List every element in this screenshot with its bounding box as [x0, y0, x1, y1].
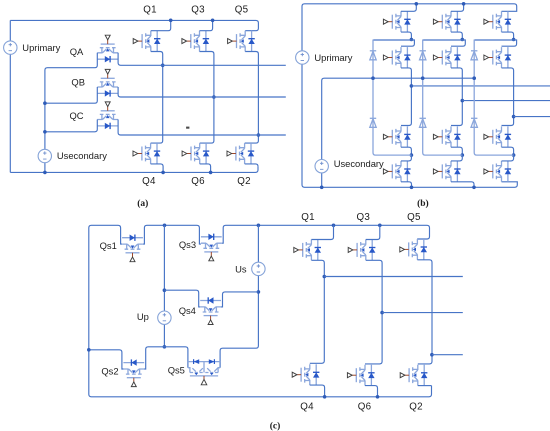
svg-text:Q6: Q6 — [191, 176, 205, 187]
transistor leg1-S2 (fig b) — [383, 47, 410, 68]
wire: fig-b left bus through Uprimary — [302, 4, 305, 188]
wire: leg3 N3 to S4 drain — [502, 155, 514, 161]
wire: phase line 2 (fig c) — [382, 312, 463, 314]
transistor leg2-S4 (fig b) — [433, 161, 460, 182]
voltage source Uprimary (fig b) — [296, 51, 309, 64]
transistor Q2 (fig a) — [227, 143, 254, 164]
junction: leg3 phase tap (fig c) — [430, 353, 434, 357]
wire: leg3 Q5 source down to Q2 drain — [245, 52, 259, 144]
wire: Q6 source to bottom rail — [200, 164, 211, 173]
wire: leg3 Q5 source to Q2 drain (fig c) — [417, 260, 432, 364]
junction: Q1 drain on top rail — [169, 19, 173, 23]
wire: top line Qs1 to Qs3 — [143, 225, 201, 244]
svg-text:Q1: Q1 — [301, 212, 315, 223]
wire: Up column — [163, 225, 165, 346]
svg-text:Usecondary: Usecondary — [334, 158, 384, 169]
svg-text:Q3: Q3 — [191, 5, 205, 16]
wire: leg1 output line to right edge — [411, 85, 550, 87]
junction: leg1 phase tap (fig c) — [323, 275, 327, 279]
junction: leg1 phase tap — [161, 64, 165, 68]
wire: leg3 clamp diode column — [474, 40, 513, 156]
junction: leg1 drain on top rail — [415, 2, 419, 6]
wire: leg1 S1 drain to top rail — [401, 4, 416, 12]
transistor leg3-S2 (fig b) — [484, 47, 511, 68]
junction: Q4 source on bottom rail — [161, 171, 165, 175]
wire: leg1 S4 source to bottom rail — [401, 182, 412, 188]
wire: top line Qs3 to bridge and Q5 drain — [222, 225, 430, 243]
wire: Q4 source to bottom rail (fig c) — [310, 385, 325, 397]
wire: Qs2 right to Up node — [144, 347, 164, 369]
wire: leg2 S1 source to clamp node N1 — [451, 32, 462, 39]
junction: leg2 source on bottom rail — [472, 186, 476, 190]
wire: phase line A from QA — [118, 53, 286, 66]
transistor Qs2 (fig c) — [123, 359, 144, 386]
junction: Q3 drain on top line — [378, 224, 382, 228]
transistor leg3-S1 (fig b) — [484, 11, 511, 32]
wire: phase line 1 (fig c) — [324, 276, 463, 278]
wire: Up node to Qs5 left — [165, 347, 188, 368]
junction: leg1 node N3 — [410, 153, 414, 157]
svg-text:QA: QA — [70, 46, 84, 57]
wire: phase line B from QB — [118, 87, 286, 97]
svg-text:Q5: Q5 — [235, 5, 249, 16]
transistor Q1 (fig c) — [294, 240, 321, 261]
svg-text:QB: QB — [71, 77, 85, 88]
svg-text:Q4: Q4 — [142, 176, 156, 187]
transistor Q4 (fig a) — [133, 143, 160, 164]
junction: Q4 source on bottom rail (fig c) — [323, 395, 327, 399]
transistor leg3-S4 (fig b) — [484, 161, 511, 182]
wire: phase line C from QC — [118, 120, 286, 136]
wire: leg1 midpoint Q1 source to Q4 drain — [151, 52, 163, 144]
junction: leg3 clamp on neutral rail — [472, 76, 476, 80]
svg-text:Qs5: Qs5 — [168, 365, 185, 376]
wire: leg1 N1 to S2 drain — [373, 40, 414, 46]
wire: QB left terminal to bus — [45, 87, 97, 103]
wire: phase line 3 (fig c) — [432, 354, 463, 356]
junction: Up column on top line — [163, 224, 167, 228]
junction: leg1 source on bottom rail — [410, 186, 414, 190]
junction: Q6 source on bottom rail — [209, 171, 213, 175]
wire: Q1 drain to top rail — [151, 20, 171, 30]
wire: Qs4 right to Us column — [221, 292, 258, 307]
wire: QA left terminal down left bus to Usecondary and bottom rail — [45, 53, 97, 173]
wire: leg3 N1 to S2 drain — [474, 40, 516, 46]
wire: leg2 N3 to S4 drain — [451, 155, 462, 161]
svg-text:Uprimary: Uprimary — [22, 42, 60, 53]
svg-text:Q2: Q2 — [237, 176, 251, 187]
wire: leg2 S1 drain to top rail — [451, 4, 464, 12]
wire: leg2 S3 source to node N3 — [451, 147, 462, 155]
wire: leg1 clamp diode column — [373, 40, 411, 156]
junction: Q6 source on bottom rail (fig c) — [376, 395, 380, 399]
junction: leg2 drain on top rail — [462, 2, 466, 6]
transistor leg1-S4 (fig b) — [383, 161, 410, 182]
wire: QC left terminal to bus — [45, 120, 97, 132]
transistor leg2-S2 (fig b) — [433, 47, 460, 68]
transistor Q5 (fig a) — [228, 31, 255, 52]
svg-text:(c): (c) — [270, 420, 281, 431]
junction: Qs2/Qs5 node on Up column — [163, 345, 167, 349]
wire: leg2 S4 source to bottom rail — [451, 182, 474, 188]
wire: Q1 drain to top line (fig c) — [311, 225, 333, 239]
wire: leg1 N3 to S4 drain — [401, 155, 411, 161]
wire: Q3 drain to top line (fig c) — [366, 225, 380, 239]
junction: leg2 output tap — [461, 99, 465, 103]
wire: leg3 output line to right edge — [514, 116, 550, 118]
wire: leg2 N1 to S2 drain — [423, 40, 466, 46]
transistor Q5 (fig c) — [400, 239, 427, 260]
junction: leg1 output tap — [410, 84, 414, 88]
wire: Q2 source to bottom rail end — [245, 164, 258, 167]
svg-text:Uprimary: Uprimary — [314, 52, 352, 63]
diode leg2-D1 clamp upper (fig b) — [420, 51, 426, 60]
wire: leg3 S3 source to node N3 — [502, 147, 514, 155]
wire: leg2 midpoint S2 source to S3 drain — [451, 68, 462, 126]
transistor QB (fig a) — [97, 69, 118, 96]
transistor Q6 (fig a) — [182, 143, 209, 164]
transistor Q4 (fig c) — [292, 364, 319, 385]
diode leg3-D2 clamp lower (fig b) — [471, 118, 477, 127]
junction: leg3 phase tap — [257, 133, 261, 137]
wire: Up column to Qs4 left — [164, 290, 200, 307]
transistor leg2-S3 (fig b) — [433, 126, 460, 147]
svg-text:(b): (b) — [417, 198, 429, 209]
svg-text:(a): (a) — [137, 198, 148, 209]
wire: leg1 S3 source to node N3 — [401, 147, 411, 155]
wire: leg3 S1 source to clamp node N1 — [502, 32, 514, 39]
wire: fig-a top DC rail (with corner into Q5 drain) — [10, 20, 258, 30]
junction: leg2 node N1 — [461, 38, 465, 42]
svg-text:Qs1: Qs1 — [100, 240, 117, 251]
wire: leg1 midpoint S2 source to S3 drain — [401, 68, 411, 126]
voltage source Up (fig c) — [158, 311, 171, 324]
stray mark artifact — [186, 127, 189, 129]
junction: leg2 phase tap (fig c) — [380, 311, 384, 315]
junction: QC on left bus — [43, 130, 47, 134]
wire: Q4 source to bottom rail — [151, 164, 164, 173]
wire: Qs2 left to left bus — [89, 350, 124, 369]
wire: Q6 source to bottom rail (fig c) — [365, 386, 378, 397]
wire: leg3 midpoint S2 source to S3 drain — [502, 68, 514, 126]
transistor leg1-S1 (fig b) — [383, 11, 410, 32]
transistor QC (fig a) — [97, 102, 118, 129]
svg-text:Q5: Q5 — [407, 212, 421, 223]
wire: Us column down to Qs5 right terminal — [220, 225, 258, 367]
diode leg1-D2 clamp lower (fig b) — [370, 118, 376, 127]
diode leg2-D2 clamp lower (fig b) — [420, 118, 426, 127]
transistor Qs5 (fig c): anti-series pair — [188, 361, 220, 363]
transistor Q6 (fig c) — [347, 365, 374, 386]
svg-text:Qs3: Qs3 — [179, 239, 196, 250]
junction: Qs4 right on Us column — [257, 290, 261, 294]
wire: Q3 drain to top rail — [200, 20, 213, 30]
diode leg3-D1 clamp upper (fig b) — [471, 51, 477, 60]
junction: Usecondary on fig-b bottom rail — [320, 186, 324, 190]
voltage source Uprimary (fig a) — [4, 41, 17, 54]
svg-text:QC: QC — [69, 110, 83, 121]
wire: leg2 midpoint Q3 source to Q6 drain — [200, 52, 214, 144]
junction: leg3 node N1 — [512, 38, 516, 42]
svg-text:Q2: Q2 — [409, 402, 423, 413]
wire: leg1 midpoint Q1 source to Q4 drain (fig c) — [310, 260, 325, 363]
junction: leg2 phase tap — [212, 95, 216, 99]
junction: leg1 node N1 — [410, 38, 414, 42]
junction: leg3 output tap — [512, 115, 516, 119]
svg-text:Usecondary: Usecondary — [57, 150, 107, 161]
junction: Qs2 on left bus — [87, 348, 91, 352]
junction: Q3 drain on top rail — [211, 19, 215, 23]
wire: leg1 S1 source to clamp node N1 — [401, 32, 411, 39]
transistor Qs3 (fig c) — [201, 234, 222, 261]
svg-text:Qs2: Qs2 — [101, 365, 118, 376]
wire: leg2 midpoint Q3 source to Q6 drain (fig c) — [365, 260, 382, 364]
diode leg1-D1 clamp upper (fig b) — [370, 51, 376, 60]
junction: leg2 clamp on neutral rail — [421, 76, 425, 80]
svg-text:Qs4: Qs4 — [179, 305, 196, 316]
wire: fig-c left bus and bottom rail — [89, 225, 432, 396]
svg-text:Q6: Q6 — [358, 402, 372, 413]
wire: fig-b neutral rail down to Usecondary — [322, 78, 476, 187]
svg-text:Us: Us — [235, 264, 247, 275]
transistor Q3 (fig c) — [348, 240, 375, 261]
wire: fig-a left bus through Uprimary — [9, 20, 11, 172]
transistor Q1 (fig a) — [133, 31, 160, 52]
transistor leg3-S3 (fig b) — [484, 126, 511, 147]
wire: leg2 output line to right edge — [462, 100, 550, 102]
svg-text:Q3: Q3 — [357, 212, 371, 223]
junction: Usecondary on bottom rail — [43, 171, 47, 175]
svg-text:Up: Up — [137, 311, 149, 322]
wire: Q2 source to bottom rail end (fig c) — [418, 385, 432, 387]
junction: Qs4 left on Up column — [163, 288, 167, 292]
voltage source Usecondary (fig a) — [38, 149, 51, 162]
voltage source Us (fig c) — [252, 262, 265, 275]
transistor QA (fig a) — [97, 35, 118, 62]
wire: fig-b top rail — [305, 4, 517, 12]
junction: leg1 clamp on neutral rail — [371, 76, 375, 80]
junction: leg2 node N3 — [461, 153, 465, 157]
junction: Us column on top line — [257, 224, 261, 228]
transistor Q2 (fig c) — [400, 365, 427, 386]
transistor Qs4 (fig c) — [200, 297, 221, 324]
junction: Q1 drain on top line — [332, 224, 336, 228]
svg-text:Q1: Q1 — [143, 5, 157, 16]
junction: leg3 node N3 — [512, 153, 516, 157]
transistor Qs1 (fig c) — [122, 235, 143, 262]
voltage source Usecondary (fig b) — [315, 160, 328, 173]
svg-text:Q4: Q4 — [300, 402, 314, 413]
wire: fig-b bottom rail — [305, 182, 518, 188]
wire: fig-a bottom rail — [10, 166, 258, 172]
wire: leg2 clamp diode column — [423, 40, 463, 156]
transistor Q3 (fig a) — [182, 31, 209, 52]
transistor leg1-S3 (fig b) — [383, 126, 410, 147]
transistor leg2-S1 (fig b) — [433, 11, 460, 32]
junction: QB on left bus — [43, 101, 47, 105]
